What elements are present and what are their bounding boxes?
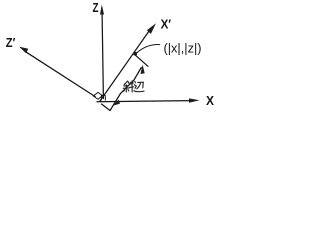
node Z-axis arrowhead — [100, 5, 104, 15]
svg-text:(|x|,|z|): (|x|,|z|) — [164, 41, 202, 55]
wire X-axis shaft — [97, 101, 192, 102]
wire leader 斜边 segment B — [110, 68, 141, 111]
node X'-axis arrowhead — [147, 23, 156, 34]
node X-axis arrowhead — [189, 98, 200, 102]
node small square marker at origin — [101, 95, 105, 100]
wire X'-axis shaft — [100, 28, 152, 102]
label 斜 (hand-drawn) — [123, 81, 133, 92]
svg-text:X′: X′ — [161, 17, 172, 32]
wire perpendicular tick at point — [135, 55, 148, 66]
node point dot (|x|,|z|) — [133, 52, 137, 56]
svg-text:X: X — [206, 93, 214, 108]
node leader blob at X-axis crossing — [112, 100, 120, 106]
svg-text:Z: Z — [93, 0, 99, 15]
wire Z'-axis shaft — [27, 52, 96, 96]
wire leader 斜边 segment A — [102, 104, 111, 111]
wire Z-axis shaft — [102, 14, 103, 99]
node leader arrowhead (up) — [140, 65, 144, 74]
svg-text:Z′: Z′ — [6, 35, 16, 50]
wire curved leader to coordinate label — [136, 45, 160, 54]
node Z'-axis arrowhead — [19, 47, 28, 54]
node right-angle marker X'Z' (diamond at origin) — [93, 92, 102, 99]
label 边 (hand-drawn) — [134, 81, 144, 91]
